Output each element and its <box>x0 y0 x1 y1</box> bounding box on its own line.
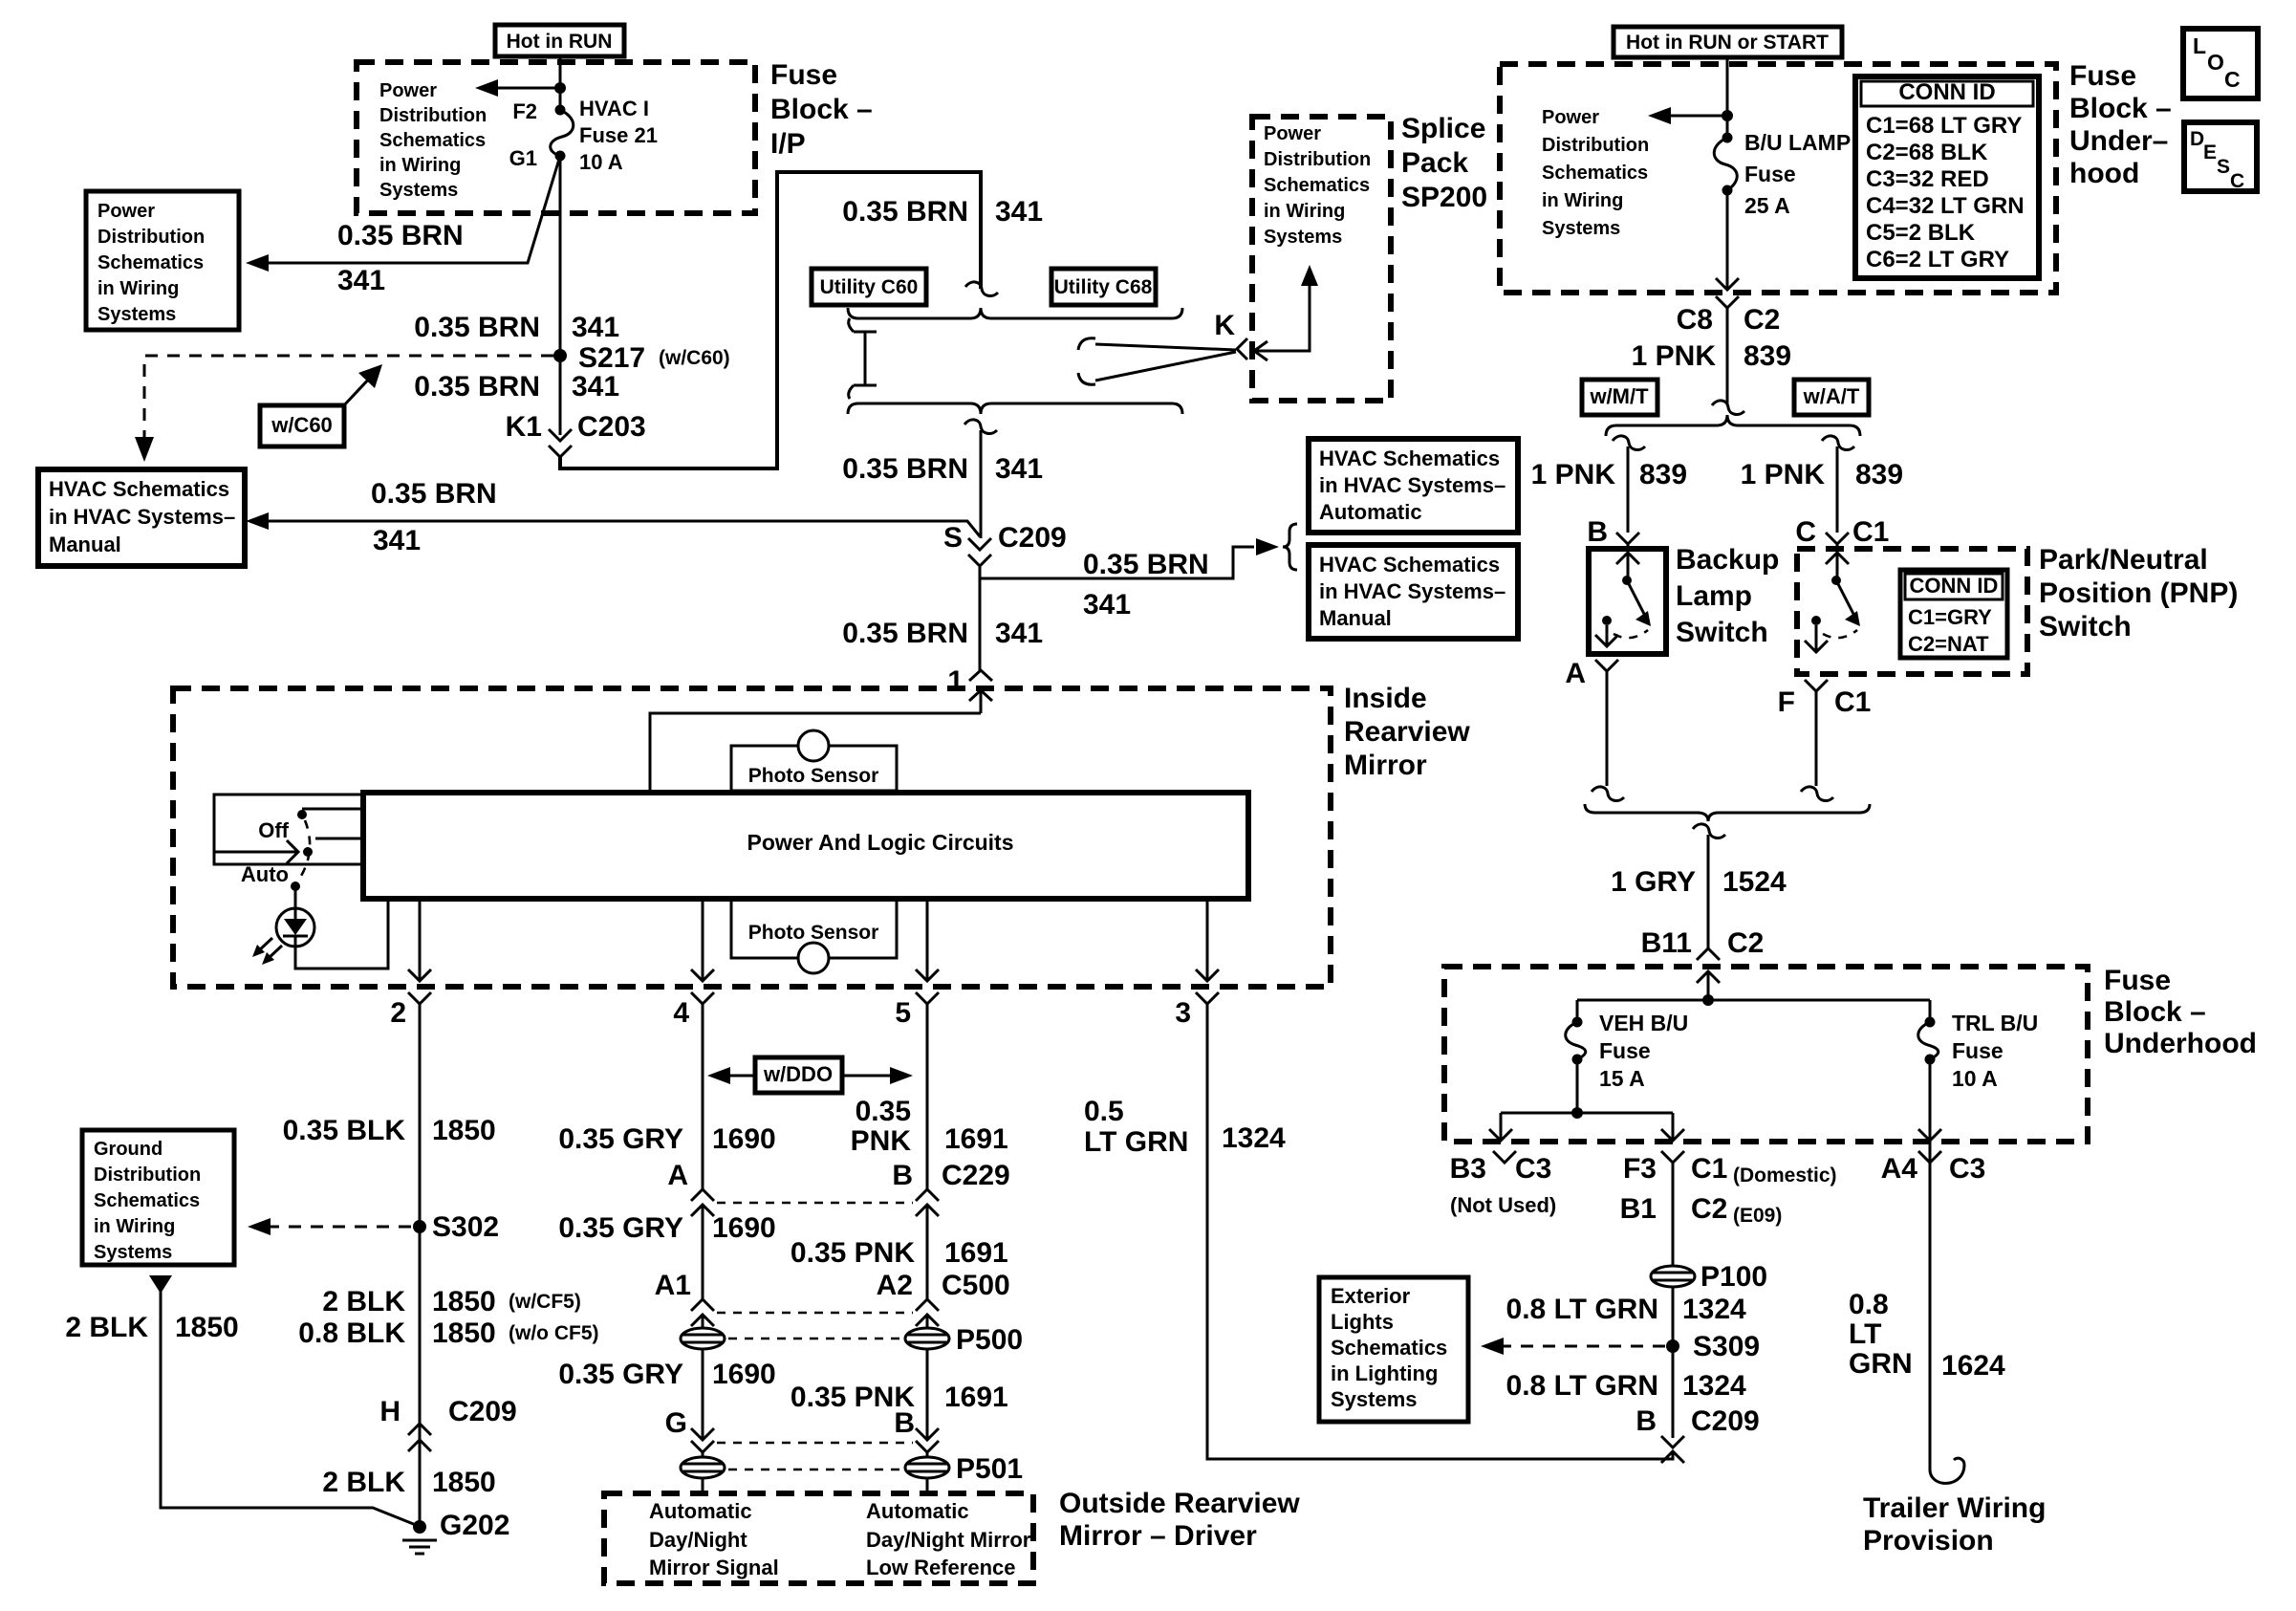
wire label 0.35 BRN / 341 (above C209) <box>842 453 1043 485</box>
wire label 1 GRY / 1524 <box>1611 866 1787 898</box>
svg-text:I/P: I/P <box>770 128 806 160</box>
wire to F3 with arrowhead <box>1661 1113 1684 1141</box>
svg-text:0.35 BRN: 0.35 BRN <box>337 220 464 251</box>
wire label 1 PNK / 839 <box>1632 340 1791 372</box>
node label S217 (w/C60) <box>578 342 730 374</box>
svg-text:0.8: 0.8 <box>1849 1289 1889 1320</box>
connector label A1 ... A2 C500 <box>655 1270 1010 1301</box>
svg-text:Schematics: Schematics <box>97 252 204 273</box>
wire PNP down <box>1815 696 1818 786</box>
CONN ID table (PNP) <box>1900 570 2007 658</box>
fuse block I/P dashed box <box>357 62 755 213</box>
svg-text:1690: 1690 <box>712 1123 776 1155</box>
backup switch contacts <box>1595 553 1651 646</box>
svg-text:Systems: Systems <box>97 304 176 325</box>
svg-text:Underhood: Underhood <box>2104 1028 2257 1059</box>
fuse VEH B/U 15A (symbol) <box>1566 1000 1586 1065</box>
svg-text:4: 4 <box>673 997 689 1029</box>
wire to HVAC schematics (long left arrow) <box>246 512 980 536</box>
svg-text:0.5: 0.5 <box>1084 1096 1124 1127</box>
svg-text:S: S <box>2217 156 2230 178</box>
connector mirror pin 4 <box>691 992 714 1004</box>
svg-text:0.35 PNK: 0.35 PNK <box>791 1237 915 1269</box>
svg-text:(Domestic): (Domestic) <box>1733 1165 1837 1186</box>
connector C203 symbol <box>549 429 572 457</box>
wire 1 GRY down to fuse block <box>1707 835 1710 948</box>
svg-text:0.8 LT GRN: 0.8 LT GRN <box>1506 1370 1658 1402</box>
svg-text:B: B <box>894 1407 915 1439</box>
svg-text:10 A: 10 A <box>579 150 623 174</box>
svg-text:Distribution: Distribution <box>94 1165 201 1186</box>
connector A4/C3 chevron <box>1918 1151 1941 1168</box>
split wire to B3 and F3 <box>1501 1112 1673 1115</box>
svg-text:0.35 BRN: 0.35 BRN <box>414 371 540 403</box>
connector symbols at G and B <box>691 1441 939 1452</box>
wire label 0.35 BRN / 341 (HVAC manual feed) <box>371 478 497 556</box>
svg-text:K1: K1 <box>506 411 542 443</box>
connector brace top <box>848 308 1182 318</box>
svg-text:1850: 1850 <box>432 1286 496 1317</box>
svg-text:Block –: Block – <box>2069 93 2172 124</box>
svg-text:Off: Off <box>258 818 289 842</box>
wire branch to HVAC systems schematics <box>980 538 1279 578</box>
wire trailer provision <box>1930 1168 1964 1483</box>
svg-text:1850: 1850 <box>432 1115 496 1146</box>
wire pin 3 to C209 <box>1207 1004 1673 1459</box>
svg-text:Under–: Under– <box>2069 125 2168 157</box>
connector C209 S symbol <box>968 538 991 566</box>
callout box Utility C60 <box>812 269 926 305</box>
callout w/DDO with arrows <box>707 1057 913 1093</box>
svg-text:in Wiring: in Wiring <box>379 155 461 176</box>
svg-text:CONN ID: CONN ID <box>1910 574 1999 598</box>
svg-text:0.35 BRN: 0.35 BRN <box>842 618 968 649</box>
connector label F / C1 <box>1778 686 1872 718</box>
svg-text:C3=32 RED: C3=32 RED <box>1866 166 1989 192</box>
connector label C8 / C2 <box>1677 304 1781 336</box>
wire label 0.35 BRN / 341 (above pin 1) <box>842 618 1043 649</box>
svg-text:0.35 BRN: 0.35 BRN <box>1083 549 1209 580</box>
PNP switch dashed box <box>1797 549 2027 674</box>
dashed wire from S217 to HVAC schematics <box>144 356 553 438</box>
dashed wire S309 to exterior lights box <box>1493 1345 1665 1348</box>
svg-text:C: C <box>1795 516 1816 548</box>
svg-text:in HVAC Systems–: in HVAC Systems– <box>1319 473 1505 497</box>
fuse block underhood dashed box (bottom) <box>1444 967 2088 1142</box>
svg-text:1 GRY: 1 GRY <box>1611 866 1696 898</box>
svg-text:(E09): (E09) <box>1733 1205 1782 1227</box>
note text Power Distribution Schematics in Wiring Systems <box>379 80 487 201</box>
wire fuse down to C8 <box>1726 190 1729 290</box>
wire label 0.8 LT GRN / 1324 (below S309) <box>1506 1370 1747 1402</box>
arrow down from ground box <box>149 1275 172 1294</box>
wire label 0.35 BRN / 341 above S217 <box>414 312 619 343</box>
wire pin4 row3 <box>691 1349 714 1440</box>
inline connector hook (bottom) <box>964 420 997 434</box>
svg-text:1324: 1324 <box>1682 1294 1746 1325</box>
svg-text:O: O <box>2207 50 2224 75</box>
wire to backup lamp switch <box>1627 446 1630 533</box>
connector label H / C209 <box>379 1396 516 1427</box>
wire pin 2 to ground <box>419 1004 422 1527</box>
callout box w/M/T <box>1582 380 1657 415</box>
svg-text:Park/Neutral: Park/Neutral <box>2039 544 2208 576</box>
wire label 0.35 BLK / 1850 <box>283 1115 496 1146</box>
text Automatic Day/Night Mirror Low Reference <box>866 1499 1031 1579</box>
wire label 2 BLK / 1850 (bottom) <box>322 1467 495 1498</box>
svg-text:C5=2 BLK: C5=2 BLK <box>1866 220 1976 246</box>
svg-text:hood: hood <box>2069 158 2139 189</box>
svg-text:Backup: Backup <box>1676 544 1779 576</box>
svg-text:1691: 1691 <box>944 1123 1008 1155</box>
hook below merge brace <box>1693 824 1725 838</box>
fuse TRL B/U 10A (symbol) <box>1918 1000 1939 1065</box>
svg-text:15 A: 15 A <box>1599 1066 1645 1091</box>
wire arrow to power distribution (left) <box>475 79 560 97</box>
outside rearview mirror dashed box <box>604 1493 1033 1583</box>
text Automatic Day/Night Mirror Signal <box>649 1499 779 1579</box>
svg-text:5: 5 <box>895 997 911 1029</box>
connector label A4 / C3 <box>1881 1153 1986 1185</box>
svg-text:Power: Power <box>97 201 155 222</box>
svg-text:341: 341 <box>995 453 1043 485</box>
svg-text:C203: C203 <box>577 411 646 443</box>
wire label 1 PNK / 839 (M/T) <box>1531 459 1687 490</box>
label Fuse Block - Underhood <box>2104 965 2257 1059</box>
svg-text:Schematics: Schematics <box>1331 1336 1447 1360</box>
box HVAC Schematics Automatic <box>1309 439 1518 533</box>
svg-text:HVAC I: HVAC I <box>579 97 649 120</box>
wire label 0.8 LT GRN / 1324 (above S309) <box>1506 1294 1747 1325</box>
wire label 0.5 LT GRN / 1324 <box>1084 1096 1286 1158</box>
svg-text:Schematics: Schematics <box>1264 175 1370 196</box>
svg-text:w/C60: w/C60 <box>271 413 333 437</box>
svg-text:Inside: Inside <box>1344 683 1427 714</box>
svg-text:Distribution: Distribution <box>1264 149 1371 170</box>
label Outside Rearview Mirror - Driver <box>1059 1488 1300 1552</box>
label Inside Rearview Mirror <box>1344 683 1470 781</box>
wire label 0.35 BRN / 341 (top of utility drop) <box>842 196 1043 228</box>
svg-text:C1: C1 <box>1852 516 1889 548</box>
svg-text:SP200: SP200 <box>1401 182 1487 213</box>
svg-text:Automatic: Automatic <box>866 1499 969 1523</box>
wire label 0.35 BRN / 341 <box>337 220 464 296</box>
splice pack note text <box>1264 123 1371 248</box>
photo sensor (bottom) <box>731 899 897 973</box>
connector label B11 / C2 <box>1641 927 1765 959</box>
svg-text:3: 3 <box>1175 997 1191 1029</box>
wire TRL fuse to A4 with arrowhead <box>1918 1059 1941 1141</box>
wire from Hot in RUN or START down <box>1726 57 1729 138</box>
wire C2 down to M/T A/T split <box>1726 308 1729 405</box>
svg-text:Block –: Block – <box>2104 996 2206 1028</box>
svg-text:Day/Night: Day/Night <box>649 1528 747 1552</box>
svg-text:in Wiring: in Wiring <box>1542 190 1623 211</box>
wire label 0.35 PNK / 1691 (row 2) <box>791 1237 1008 1269</box>
svg-text:B: B <box>1587 516 1608 548</box>
feed wire across fuse block <box>1577 999 1930 1002</box>
svg-text:2 BLK: 2 BLK <box>65 1312 148 1343</box>
svg-text:Low Reference: Low Reference <box>866 1556 1016 1579</box>
svg-text:0.35 BRN: 0.35 BRN <box>842 453 968 485</box>
svg-text:Distribution: Distribution <box>97 227 205 248</box>
svg-text:2: 2 <box>390 997 406 1029</box>
svg-text:HVAC Schematics: HVAC Schematics <box>49 477 229 501</box>
svg-text:A1: A1 <box>655 1270 691 1301</box>
fuse HVAC I Fuse 21 10A (symbol) <box>551 105 574 162</box>
svg-text:S217: S217 <box>578 342 645 374</box>
svg-text:1324: 1324 <box>1682 1370 1746 1402</box>
svg-text:839: 839 <box>1855 459 1903 490</box>
wire F3 down <box>1672 1168 1675 1266</box>
connector brace bottom <box>848 403 1182 414</box>
wire pin 3 drop <box>1196 899 1219 981</box>
svg-text:C2: C2 <box>1744 304 1780 336</box>
wire from Hot in RUN down <box>559 56 562 110</box>
wire switch to LED <box>294 886 297 908</box>
svg-text:1 PNK: 1 PNK <box>1531 459 1616 490</box>
wire G1 down to K1 <box>559 156 562 435</box>
svg-text:w/A/T: w/A/T <box>1803 384 1860 408</box>
svg-text:P500: P500 <box>956 1324 1023 1356</box>
svg-text:839: 839 <box>1639 459 1687 490</box>
svg-text:Mirror – Driver: Mirror – Driver <box>1059 1520 1257 1552</box>
svg-text:Switch: Switch <box>1676 617 1768 648</box>
svg-text:Fuse: Fuse <box>770 59 837 91</box>
backup lamp switch box <box>1589 549 1666 654</box>
svg-text:G202: G202 <box>440 1510 509 1541</box>
photo sensor (top) <box>731 730 897 791</box>
svg-text:0.35 BLK: 0.35 BLK <box>283 1115 406 1146</box>
wire label 0.35 GRY / 1690 (row 3) <box>558 1359 775 1390</box>
svg-text:VEH B/U: VEH B/U <box>1599 1011 1688 1035</box>
splice node S302 <box>413 1220 426 1233</box>
svg-text:Fuse: Fuse <box>2069 60 2136 92</box>
svg-text:341: 341 <box>995 618 1043 649</box>
hook to backup lamp branch <box>1613 436 1645 450</box>
grommet P500 (pin4) <box>681 1328 725 1349</box>
svg-text:Distribution: Distribution <box>379 105 487 126</box>
svg-text:1690: 1690 <box>712 1212 776 1244</box>
fuse value label B/U LAMP Fuse 25 A <box>1744 130 1851 218</box>
svg-text:Systems: Systems <box>94 1242 172 1263</box>
connector chevron at backup switch pin B <box>1616 533 1639 549</box>
svg-text:Manual: Manual <box>1319 606 1392 630</box>
arrowhead to power distribution box <box>246 254 269 272</box>
wire pin1 to power and logic box <box>650 713 981 793</box>
svg-text:Power And Logic Circuits: Power And Logic Circuits <box>747 830 1013 855</box>
connector C229 symbols <box>691 1189 939 1220</box>
svg-text:in HVAC Systems–: in HVAC Systems– <box>49 505 235 529</box>
svg-text:(Not Used): (Not Used) <box>1450 1193 1556 1217</box>
svg-text:G: G <box>665 1407 687 1439</box>
svg-text:Hot in RUN: Hot in RUN <box>507 31 613 53</box>
svg-text:0.35: 0.35 <box>856 1096 911 1127</box>
wire to PNP switch <box>1836 446 1839 533</box>
svg-text:A2: A2 <box>877 1270 913 1301</box>
svg-text:341: 341 <box>572 312 619 343</box>
svg-text:Outside Rearview: Outside Rearview <box>1059 1488 1300 1519</box>
svg-text:0.35 BRN: 0.35 BRN <box>414 312 540 343</box>
connector B3/C3 chevron <box>1493 1151 1516 1163</box>
svg-text:B3: B3 <box>1450 1153 1486 1185</box>
svg-text:Block –: Block – <box>770 94 873 125</box>
callout box Utility C68 <box>1051 269 1156 305</box>
svg-text:B11: B11 <box>1641 927 1692 959</box>
svg-text:2 BLK: 2 BLK <box>322 1467 405 1498</box>
box Exterior Lights Schematics in Lighting Systems <box>1319 1277 1468 1422</box>
svg-text:1850: 1850 <box>175 1312 239 1343</box>
svg-text:1691: 1691 <box>944 1237 1008 1269</box>
svg-text:Photo Sensor: Photo Sensor <box>748 922 879 944</box>
wire arrow to power distribution (left) <box>1648 107 1727 124</box>
svg-text:1850: 1850 <box>432 1467 496 1498</box>
svg-text:C6=2 LT GRY: C6=2 LT GRY <box>1866 247 2009 272</box>
box HVAC Schematics Manual <box>1309 545 1518 639</box>
wire label 0.35 PNK / 1691 (row 3) <box>791 1382 1008 1413</box>
svg-text:Systems: Systems <box>1331 1387 1418 1411</box>
LED indicator <box>252 908 314 965</box>
arrow into fuse block from B11 <box>1697 971 1720 1000</box>
svg-text:C3: C3 <box>1515 1153 1551 1185</box>
svg-text:C3: C3 <box>1949 1153 1985 1185</box>
svg-text:Utility C68: Utility C68 <box>1054 276 1153 298</box>
svg-text:D: D <box>2190 128 2204 150</box>
svg-text:C2: C2 <box>1727 927 1764 959</box>
merge brace <box>1585 804 1870 821</box>
inline connector hook (top) <box>965 282 998 296</box>
connector terminal I (C60 side) <box>849 318 877 399</box>
svg-text:C2=NAT: C2=NAT <box>1908 632 1989 656</box>
wire C209 down to mirror pin 1 <box>979 566 982 670</box>
arrowhead down to HVAC schematics box <box>135 437 154 462</box>
fuse block underhood dashed box (top) <box>1500 64 2056 293</box>
svg-text:2 BLK: 2 BLK <box>322 1286 405 1317</box>
wire P100 to C209 <box>1672 1287 1675 1438</box>
dashed wire S302 to ground box <box>260 1226 411 1229</box>
junction node above B/U fuse <box>1722 110 1733 121</box>
dashed link P500 <box>728 1338 901 1340</box>
svg-text:Power: Power <box>1264 123 1321 144</box>
svg-text:in Wiring: in Wiring <box>1264 201 1345 222</box>
wire to B3 with arrowhead <box>1489 1113 1512 1141</box>
wire LED to logic box <box>295 899 388 969</box>
svg-text:Power: Power <box>1542 107 1599 128</box>
svg-text:in Lighting: in Lighting <box>1331 1361 1438 1385</box>
svg-text:(w/o CF5): (w/o CF5) <box>509 1322 599 1344</box>
wire pin 4 drop <box>691 899 714 981</box>
svg-text:B: B <box>1635 1405 1657 1437</box>
svg-text:1 PNK: 1 PNK <box>1741 459 1826 490</box>
wire pin 4 column <box>702 1004 704 1191</box>
box Power Distribution Schematics in Wiring Systems <box>86 191 239 330</box>
grommet P501 (pin5) <box>905 1452 949 1478</box>
wire label 2 BLK / 1850 (left) <box>65 1312 238 1343</box>
svg-text:C: C <box>2224 67 2241 92</box>
svg-text:Pack: Pack <box>1401 147 1468 179</box>
connector mirror pin 5 <box>916 992 939 1004</box>
switch housing box <box>214 795 363 864</box>
svg-text:B1: B1 <box>1620 1193 1657 1225</box>
inside rearview mirror dashed box <box>173 688 1331 987</box>
wire label 0.35 PNK / 1691 (row 1) <box>851 1096 1008 1157</box>
svg-text:1524: 1524 <box>1722 866 1787 898</box>
svg-text:B: B <box>892 1160 913 1191</box>
wire pin 5 drop <box>916 899 939 981</box>
svg-text:Rearview: Rearview <box>1344 716 1470 748</box>
connector F3/C1 chevron <box>1661 1151 1684 1168</box>
svg-text:Systems: Systems <box>1542 218 1620 239</box>
connector C500 symbols <box>691 1299 939 1328</box>
svg-text:0.35 GRY: 0.35 GRY <box>558 1212 683 1244</box>
connector label B / C209 <box>1635 1405 1759 1437</box>
svg-text:Splice: Splice <box>1401 113 1485 144</box>
svg-text:1850: 1850 <box>432 1317 496 1349</box>
wire slanted from G1 to left arrow <box>254 156 560 263</box>
svg-text:w/DDO: w/DDO <box>763 1062 833 1086</box>
svg-text:C500: C500 <box>942 1270 1010 1301</box>
wire pin5 row3 <box>916 1349 939 1440</box>
svg-text:Manual: Manual <box>49 533 121 556</box>
connector label S / C209 <box>943 522 1067 554</box>
svg-text:Systems: Systems <box>1264 227 1342 248</box>
svg-text:S302: S302 <box>432 1211 499 1243</box>
fuse value label TRL B/U Fuse 10 A <box>1952 1011 2038 1091</box>
connector label K1 / C203 <box>506 411 646 443</box>
connector chevron B11 <box>1697 948 1720 960</box>
svg-text:LT GRN: LT GRN <box>1084 1126 1188 1158</box>
svg-text:Lamp: Lamp <box>1676 580 1752 612</box>
brace for HVAC schematic boxes <box>1283 524 1297 570</box>
svg-text:Mirror: Mirror <box>1344 750 1427 781</box>
svg-text:Provision: Provision <box>1863 1525 1994 1557</box>
svg-text:C: C <box>2230 170 2244 192</box>
svg-text:Automatic: Automatic <box>649 1499 752 1523</box>
svg-text:G1: G1 <box>509 146 537 170</box>
svg-text:Position (PNP): Position (PNP) <box>2039 577 2238 609</box>
svg-text:K: K <box>1214 310 1235 341</box>
svg-text:C1: C1 <box>1691 1153 1727 1185</box>
svg-text:C209: C209 <box>1691 1405 1760 1437</box>
svg-text:Utility C60: Utility C60 <box>820 276 919 298</box>
svg-text:A: A <box>667 1160 688 1191</box>
svg-text:B/U LAMP: B/U LAMP <box>1744 130 1851 155</box>
svg-text:1324: 1324 <box>1222 1122 1286 1154</box>
wire pin 2 drop <box>408 899 431 981</box>
svg-text:F: F <box>1778 686 1795 718</box>
svg-text:P100: P100 <box>1700 1261 1767 1293</box>
svg-text:25 A: 25 A <box>1744 193 1790 218</box>
split brace <box>1606 415 1860 436</box>
svg-text:Ground: Ground <box>94 1139 162 1160</box>
svg-text:Schematics: Schematics <box>1542 163 1648 184</box>
wire label 2 BLK / 1850 (w/CF5) <box>322 1286 581 1317</box>
svg-text:Lights: Lights <box>1331 1310 1394 1334</box>
wire pin 5 column <box>926 1004 929 1191</box>
svg-text:H: H <box>379 1396 401 1427</box>
svg-text:341: 341 <box>373 525 421 556</box>
svg-text:1: 1 <box>947 665 964 697</box>
connector C209 B symbol with arrow <box>1661 1436 1684 1463</box>
wire label 0.35 GRY / 1690 (row 2) <box>558 1212 775 1244</box>
connector C8/C2 symbol <box>1716 296 1739 308</box>
connector mirror pin 3 <box>1196 992 1219 1004</box>
junction node inside fuse block <box>1702 994 1714 1006</box>
svg-text:HVAC Schematics: HVAC Schematics <box>1319 553 1500 577</box>
arrowhead at fuse block edge <box>1716 278 1739 290</box>
svg-text:Fuse: Fuse <box>1744 162 1796 186</box>
svg-text:Fuse 21: Fuse 21 <box>579 123 658 147</box>
